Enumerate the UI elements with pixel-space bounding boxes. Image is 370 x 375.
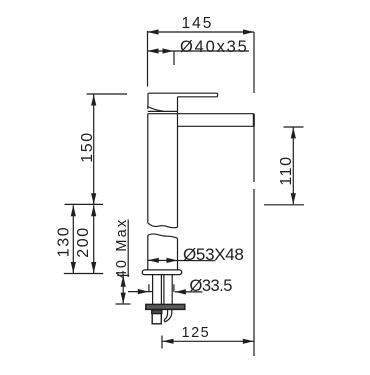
shank stud left — [160, 275, 162, 305]
leader ø53X48 — [148, 259, 216, 261]
svg-text:130: 130 — [56, 226, 73, 258]
cap/body seam — [148, 110, 178, 112]
extension line left of 145 — [147, 31, 149, 87]
label 110 (rotated) — [278, 155, 295, 185]
leader ø33.5 left arrow — [138, 289, 149, 294]
dim 130 bottom arrow — [71, 262, 76, 273]
dim 150 line — [93, 95, 95, 205]
dim 200 bottom arrow — [91, 262, 96, 273]
dim 125 left tick (centerline) — [161, 336, 163, 349]
dim 150 bottom arrow — [91, 193, 96, 204]
dim 200 top arrow — [91, 205, 96, 216]
base flange — [142, 270, 181, 275]
mounting nut plate — [146, 304, 185, 309]
dim 130 line — [72, 205, 74, 273]
dim 150 top arrow — [91, 95, 96, 106]
dim ø53X48 right arrow — [167, 258, 178, 263]
extension line top left — [87, 93, 128, 95]
leader ø40x35 left arrow — [148, 48, 159, 53]
svg-text:200: 200 — [75, 226, 92, 258]
svg-text:145: 145 — [182, 15, 214, 32]
dim 145 line — [148, 31, 255, 33]
svg-text:125: 125 — [182, 325, 211, 341]
svg-text:Ø40x35: Ø40x35 — [180, 38, 249, 56]
supply hose flap — [164, 310, 172, 322]
witness drop line ø40x35 — [173, 51, 175, 65]
dim ø53X48 left arrow — [148, 258, 159, 263]
handle cap right step — [177, 97, 179, 112]
dim 145 right arrow — [243, 29, 254, 34]
dim 40Max top tick — [117, 274, 129, 276]
break line upper — [148, 223, 178, 228]
body top / spout top — [148, 113, 254, 115]
leader ø40x35 — [148, 50, 250, 52]
dim 110 top arrow — [291, 127, 296, 138]
dim 40Max bottom arrow — [121, 293, 126, 304]
dim 110 line — [292, 127, 294, 204]
extension line right (faucet centerline reach), dashed — [253, 32, 255, 93]
lever bottom — [178, 96, 218, 98]
shank outer right — [171, 275, 173, 305]
basin rim tick right — [264, 204, 304, 206]
shank outer left — [152, 275, 154, 305]
spout right end — [253, 114, 255, 127]
body right edge lower — [177, 238, 179, 270]
underline of 40 Max — [127, 220, 129, 278]
lock nut body — [152, 310, 161, 324]
label 150 (rotated) — [79, 131, 96, 163]
break line lower — [148, 234, 178, 238]
leader ø33.5 right arrow — [175, 289, 186, 294]
lock nut dark top — [152, 310, 162, 314]
witness line ø33.5 right — [173, 284, 175, 292]
dim 125 line — [163, 340, 254, 342]
handle cap underside diagonal — [148, 107, 164, 112]
dim 130 top arrow — [71, 205, 76, 216]
label 200 (rotated) — [75, 226, 92, 258]
dim 200 line — [93, 205, 95, 273]
label 40 Max (rotated, underlined) — [114, 218, 130, 279]
dim 145 left arrow — [148, 29, 159, 34]
dim 110 bottom arrow — [291, 193, 296, 204]
dim 125 right arrow — [243, 339, 254, 344]
witness line ø33.5 left — [148, 284, 150, 292]
spout bottom — [178, 125, 254, 127]
svg-text:Ø53X48: Ø53X48 — [183, 245, 244, 264]
shank stud right — [163, 275, 165, 305]
leader ø33.5 right underline — [175, 291, 203, 293]
dim 40Max top arrow — [121, 276, 126, 287]
body right edge upper — [177, 111, 179, 227]
dim 125 left arrow — [163, 339, 174, 344]
counter tick left — [64, 273, 104, 275]
lever right edge — [217, 93, 219, 97]
leader ø33.5 left arrow line — [128, 291, 152, 293]
leader ø40x35 right arrow — [163, 48, 174, 53]
label 130 (rotated) — [56, 226, 73, 258]
handle top — [148, 92, 218, 94]
basin rim tick left — [65, 203, 104, 205]
svg-text:110: 110 — [278, 155, 295, 185]
dim 110 top tick — [284, 126, 304, 128]
handle cap left edge — [147, 93, 149, 109]
dim 40Max bottom tick — [116, 303, 131, 305]
body left edge upper — [147, 114, 149, 223]
body left edge lower — [147, 235, 149, 270]
dim 40Max line — [122, 276, 124, 304]
